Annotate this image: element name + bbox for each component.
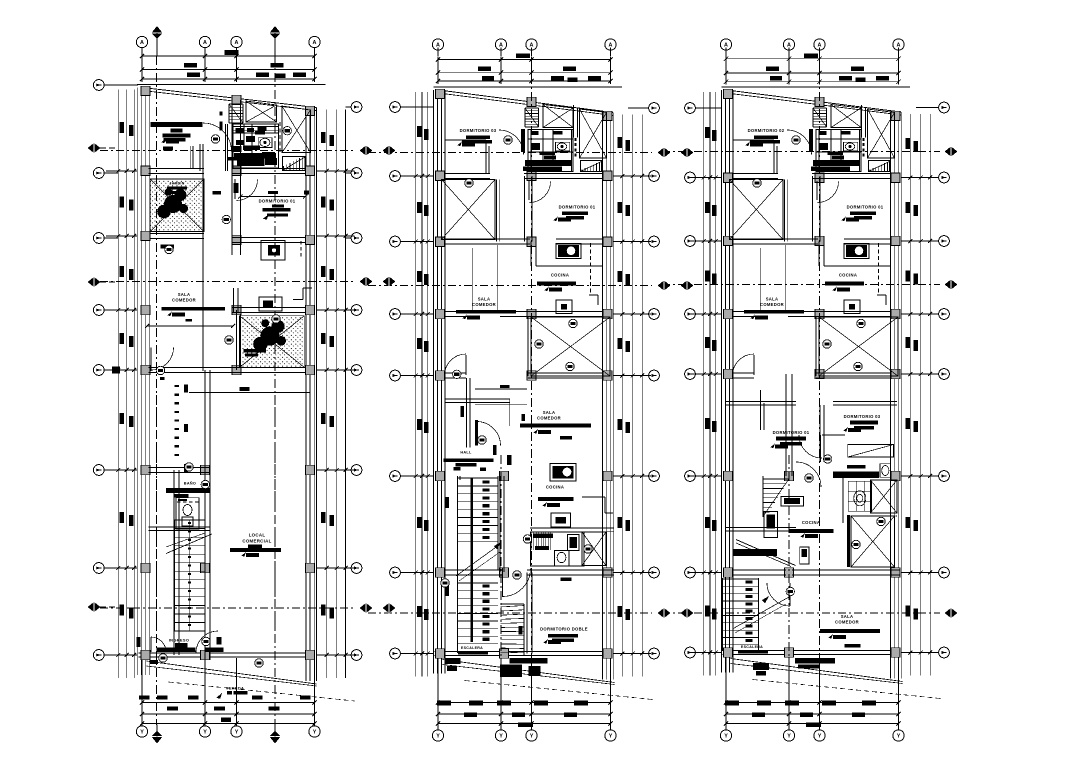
svg-text:SALA: SALA: [543, 410, 556, 415]
plan1 dashed lines local: [156, 395, 158, 640]
plan1 row grid lines and ticks: [106, 170, 137, 172]
plan2 bottom boundary wall: [435, 650, 613, 652]
svg-text:A: A: [724, 42, 728, 48]
plan3 closet bar: [733, 549, 777, 556]
columns: [141, 86, 150, 96]
entry door lower-left: [465, 355, 467, 375]
fridge: [556, 300, 572, 314]
far-left grid bubbles column: [93, 80, 104, 91]
plan2 right dimension lines: [621, 115, 623, 677]
plan1 ingreso right door arc: [196, 631, 218, 653]
svg-text:ESCALERA: ESCALERA: [461, 646, 483, 650]
plan1 lower stair by bath: [283, 166, 285, 170]
stove black: [556, 244, 581, 259]
plan1 patio X void right: [282, 106, 311, 153]
fan stair right: [869, 170, 871, 172]
plan2 sidewalk slope lines: [443, 660, 615, 683]
plan1 interior vertical walls: [231, 100, 233, 171]
svg-text:Y: Y: [787, 733, 791, 739]
plan1 eave line over street front: [137, 84, 325, 86]
plan3 bath mid: [847, 465, 866, 469]
svg-text:Y: Y: [235, 729, 239, 735]
door bedroom 01: [528, 181, 530, 200]
plan1 top dimension lines: [142, 55, 315, 57]
svg-text:SALA: SALA: [766, 297, 779, 302]
plan2 right section diamonds: [658, 148, 671, 158]
plan2 right wall: [602, 113, 604, 680]
svg-text:DORMITORIO 02: DORMITORIO 02: [748, 128, 785, 133]
svg-text:DORMITORIO 01: DORMITORIO 01: [847, 205, 884, 210]
svg-text:HALL: HALL: [460, 451, 472, 455]
plan2 right bubbles: [649, 103, 660, 114]
svg-text:A: A: [787, 42, 791, 48]
plan3 left margin dimension text blobs: [705, 127, 710, 138]
interior vertical wall: [812, 176, 814, 242]
plan3 lavatory left: [781, 496, 804, 506]
plan1 stair upper flight: [229, 103, 243, 105]
svg-text:BAÑO: BAÑO: [184, 481, 196, 486]
columns: [724, 89, 733, 99]
svg-text:Y: Y: [609, 733, 613, 739]
plan2 bottom grid bubbles: [432, 730, 443, 741]
plan2 left margin dimension text blobs: [417, 126, 422, 137]
svg-text:LOCAL: LOCAL: [249, 533, 266, 538]
kitchen short wall: [818, 242, 820, 267]
far-left section diamond: [88, 602, 101, 612]
left patio X void: [730, 180, 784, 240]
plan3 bottom grid bubbles: [720, 730, 731, 741]
svg-text:A: A: [609, 42, 613, 48]
plan3 stair: [722, 578, 724, 651]
plan3 top dimension lines: [726, 58, 899, 60]
svg-text:COMEDOR: COMEDOR: [760, 302, 784, 307]
plan1 sloped street-front wall: [142, 88, 316, 108]
plan2 hall door leaf and arc: [475, 420, 478, 446]
plan3 left wall: [721, 90, 723, 673]
plan1 bottom boundary wall: [139, 652, 315, 654]
svg-text:DORMITORIO 03: DORMITORIO 03: [844, 414, 881, 419]
plan3 door arc stair: [767, 583, 790, 606]
plan1 bottom-left door blobs: [150, 660, 158, 664]
plan3 tub fixture: [848, 481, 871, 511]
svg-text:Y: Y: [203, 729, 207, 735]
far-left section diamond: [88, 277, 101, 287]
plan3 stove left: [764, 512, 778, 538]
plan3 wall left mid: [726, 526, 796, 528]
plan1 interior walls: [149, 168, 205, 170]
plan3 door sill bottom: [795, 658, 835, 664]
plan3 bottom dimension lines: [726, 702, 899, 704]
plan3 left bubbles: [685, 103, 696, 114]
svg-text:Y: Y: [897, 733, 901, 739]
svg-text:DORMITORIO 01: DORMITORIO 01: [259, 199, 296, 204]
plan1 jardin patio upper: [150, 179, 204, 232]
svg-text:SALA: SALA: [478, 297, 491, 302]
upper stair flight: [813, 107, 827, 109]
svg-text:COMEDOR: COMEDOR: [537, 416, 561, 421]
plan2 right margin dimension text blobs: [618, 137, 623, 148]
door leaf black bar: [809, 129, 813, 152]
plan3 bottom boundary wall: [723, 649, 901, 651]
svg-text:Y: Y: [724, 733, 728, 739]
plan1 patio lower: [240, 316, 305, 368]
door to upper bedroom: [787, 130, 812, 155]
plan1 top section marker: [269, 26, 280, 39]
plan3 right wall: [890, 112, 892, 679]
plan1 top grid bubbles: [136, 36, 147, 47]
plan2 stair centre rail: [470, 478, 473, 642]
plan1 entry door bottom: [151, 637, 166, 652]
svg-text:DORMITORIO 01: DORMITORIO 01: [559, 205, 596, 210]
plan1 entry door mid: [150, 348, 152, 372]
plan3 stair entry black marks: [753, 663, 769, 670]
plan3 double door arcs: [799, 435, 822, 458]
big patio X void: [819, 317, 898, 376]
svg-text:SALA: SALA: [841, 614, 854, 619]
fridge: [844, 300, 860, 314]
svg-text:COMERCIAL: COMERCIAL: [242, 539, 271, 544]
svg-text:ESCALERA: ESCALERA: [741, 645, 763, 649]
plan3 X voids right: [871, 480, 898, 513]
plan2 left wall: [433, 90, 435, 674]
svg-text:A: A: [140, 40, 144, 46]
plan2 row grid lines and ticks: [404, 175, 434, 177]
plan2 left dimension lines: [415, 92, 417, 677]
plan1 bottom dim blobs: [139, 696, 150, 700]
svg-text:Y: Y: [140, 729, 144, 735]
svg-text:A: A: [203, 40, 207, 46]
svg-text:A: A: [499, 42, 503, 48]
plan1 kitchen counter mid: [259, 297, 282, 311]
closet wall stub: [733, 139, 775, 141]
plan1 bottom section markers: [151, 731, 162, 744]
plan2 stair break lines: [456, 545, 499, 576]
upper patio X void: [580, 109, 607, 158]
closet wall stub: [445, 139, 487, 141]
svg-text:COCINA: COCINA: [839, 273, 857, 278]
corridor wall right of patio: [496, 180, 498, 242]
plan3 sidewalk slope lines: [731, 659, 903, 682]
plan3 right bubbles: [939, 102, 950, 113]
plan3 top grid bubbles: [720, 39, 731, 50]
plan1 keynote: [211, 135, 219, 143]
plan3 mid walls: [726, 401, 796, 403]
upper bathroom block: [816, 130, 861, 172]
plan2 main stair shaft: [457, 476, 459, 653]
upper hall X: [831, 105, 861, 128]
plan1 top-left bedroom label blobs: [171, 128, 183, 132]
plan2 apartment entry walls: [445, 398, 511, 400]
left patio X void: [442, 180, 496, 240]
upper bathroom block: [528, 130, 573, 172]
plan1 right section diamonds: [360, 146, 373, 156]
plan1 left margin dimension text blobs: [120, 122, 125, 133]
row line top-left: [104, 84, 138, 86]
svg-text:COMEDOR: COMEDOR: [835, 620, 859, 625]
plan2 lower appliance: [551, 513, 571, 527]
plan1 door dormitorio01: [234, 179, 236, 199]
svg-text:JARDIN: JARDIN: [169, 182, 184, 186]
interior vertical wall: [524, 176, 526, 242]
columns: [436, 89, 445, 99]
svg-text:COMEDOR: COMEDOR: [472, 302, 496, 307]
plan3 right dimension lines: [909, 114, 911, 676]
svg-text:A: A: [530, 42, 534, 48]
plan1 right margin dimension text blobs: [321, 132, 326, 143]
door bedroom 01: [816, 181, 818, 200]
plan1 top-left bedroom closet: [150, 122, 202, 127]
plan3 bed box: [848, 445, 894, 458]
plan2 wall row7 segments: [445, 569, 503, 571]
plan2 top dimension lines: [438, 59, 611, 61]
svg-text:COCINA: COCINA: [551, 273, 569, 278]
plan1 keynote in patio: [283, 127, 291, 135]
plan1 left dimension lines: [117, 90, 119, 679]
fan stair right: [581, 170, 583, 172]
upper hall X: [543, 105, 573, 128]
plan1 kitchen step wall: [293, 299, 303, 301]
plan3 right margin dimension text blobs: [906, 138, 911, 149]
row walls: [733, 173, 779, 175]
plan2 bottom dim blobs: [437, 701, 451, 706]
plan3 left dimension lines: [703, 92, 705, 676]
plan1 dorm01 interior dim line: [240, 196, 306, 198]
far-left section diamond: [88, 143, 101, 153]
svg-text:INGRESO: INGRESO: [169, 638, 190, 643]
svg-text:Y: Y: [818, 733, 822, 739]
plan3 keynote mid: [786, 587, 794, 595]
svg-text:A: A: [313, 40, 317, 46]
svg-text:Y: Y: [436, 733, 440, 739]
door leaf black bar: [521, 129, 525, 152]
plan1 stair marks upper: [175, 385, 180, 387]
plan3 stair break lines: [732, 597, 788, 629]
plan1 right dimension lines: [326, 110, 328, 679]
svg-text:COCINA: COCINA: [802, 520, 820, 525]
plan1 blobs row4: [213, 191, 222, 195]
svg-text:DORMITORIO 03: DORMITORIO 03: [460, 128, 497, 133]
plan3 winder arrival hatch: [763, 478, 789, 480]
door to upper bedroom: [499, 130, 524, 155]
plan1 left wall: [136, 88, 138, 676]
plan2 hall right wall: [466, 378, 468, 448]
plan3 eave line over street front: [722, 86, 911, 88]
wall between bath and patio: [573, 105, 575, 138]
svg-text:SALA: SALA: [178, 292, 191, 297]
plan1 interior dim line sala: [147, 325, 233, 327]
plan3 interior vertical mid: [785, 374, 787, 476]
plan2 bottom dimension lines: [438, 702, 611, 704]
plan1 top section marker: [151, 26, 162, 39]
plan1 stair break line: [166, 534, 212, 554]
svg-text:DORMITORIO DOBLE: DORMITORIO DOBLE: [540, 627, 588, 632]
plan2 left bubbles: [390, 102, 401, 113]
plan1 bathroom partition dashed: [279, 122, 281, 153]
upper patio X void: [868, 109, 895, 158]
svg-text:DORMITORIO 01: DORMITORIO 01: [773, 430, 810, 435]
plan3 diagonal wall: [736, 540, 796, 566]
plan3 bottom dim blobs: [725, 701, 739, 706]
plan1 vertical section centrelines: [156, 56, 158, 725]
svg-text:A: A: [436, 42, 440, 48]
plan3 wall row7 segments: [733, 569, 787, 571]
plan2 sloped street-front wall: [439, 90, 614, 113]
svg-text:A: A: [818, 42, 822, 48]
plan1 small rects near stair: [184, 385, 188, 393]
plan2 top grid bubbles: [432, 39, 443, 50]
svg-text:COMEDOR: COMEDOR: [172, 298, 196, 303]
horizontal section centrelines: [100, 150, 355, 152]
plan1 hall X void: [246, 101, 277, 122]
upper stair flight: [525, 107, 539, 109]
plan2 door sill bottom: [510, 658, 548, 664]
plan1 keynote sala: [222, 215, 230, 223]
corridor wall right of patio: [784, 180, 786, 242]
plan2 stair entry black marks: [445, 658, 461, 664]
plan3 sloped street-front wall: [727, 90, 902, 112]
plan1 bottom dimension lines: [142, 702, 315, 704]
plan2 stair winders: [501, 603, 525, 605]
wall between bath and patio: [861, 105, 863, 138]
plan1 local comercial ceiling line: [189, 391, 310, 393]
svg-text:Y: Y: [499, 733, 503, 739]
plan2 kitchen step wall: [582, 496, 605, 498]
svg-text:A: A: [897, 42, 901, 48]
row walls: [445, 173, 491, 175]
svg-text:Y: Y: [530, 733, 534, 739]
extra tick far-left: [112, 367, 120, 374]
stove black: [844, 244, 869, 259]
plan2 stair exit door: [502, 568, 504, 597]
plan3 vertical centrelines: [819, 58, 821, 698]
plan1 bathroom block: [233, 124, 279, 168]
svg-text:Y: Y: [313, 729, 317, 735]
plan3 stair blob rail: [746, 581, 753, 584]
svg-text:VEREDA: VEREDA: [226, 686, 244, 691]
plan2 interior vertical lower: [526, 573, 528, 654]
plan1 bottom grid bubbles: [136, 726, 147, 737]
plan1 kitchen side wall: [233, 288, 235, 313]
svg-text:A: A: [235, 40, 239, 46]
plan1 right wall: [305, 108, 307, 682]
kitchen counter line: [824, 265, 890, 267]
kitchen short wall: [530, 242, 532, 267]
kitchen counter line: [536, 265, 602, 267]
plan3 small closet: [800, 547, 809, 564]
plan2 bath lower: [530, 527, 614, 529]
plan2 stove: [550, 464, 576, 482]
plan1 door to bedroom: [190, 146, 192, 169]
plan2 interior dim lines: [475, 388, 527, 390]
plan3 right section diamonds: [945, 147, 958, 157]
plan1 cocina fixture bottom-right: [261, 241, 285, 260]
plan2 vertical centrelines: [531, 58, 533, 698]
plan2 inner dim blobs: [446, 497, 450, 508]
plan3 row grid lines and ticks: [692, 177, 722, 179]
plan1 main stair: [175, 519, 206, 521]
plan2 shower X: [582, 532, 606, 566]
svg-text:COCINA: COCINA: [546, 485, 564, 490]
entry door lower-left: [753, 355, 755, 375]
plan2 eave line over street front: [434, 86, 623, 88]
plan1 sidewalk slope lines: [147, 661, 317, 684]
plan1 right bubbles: [351, 102, 362, 113]
big patio X void: [531, 317, 610, 376]
